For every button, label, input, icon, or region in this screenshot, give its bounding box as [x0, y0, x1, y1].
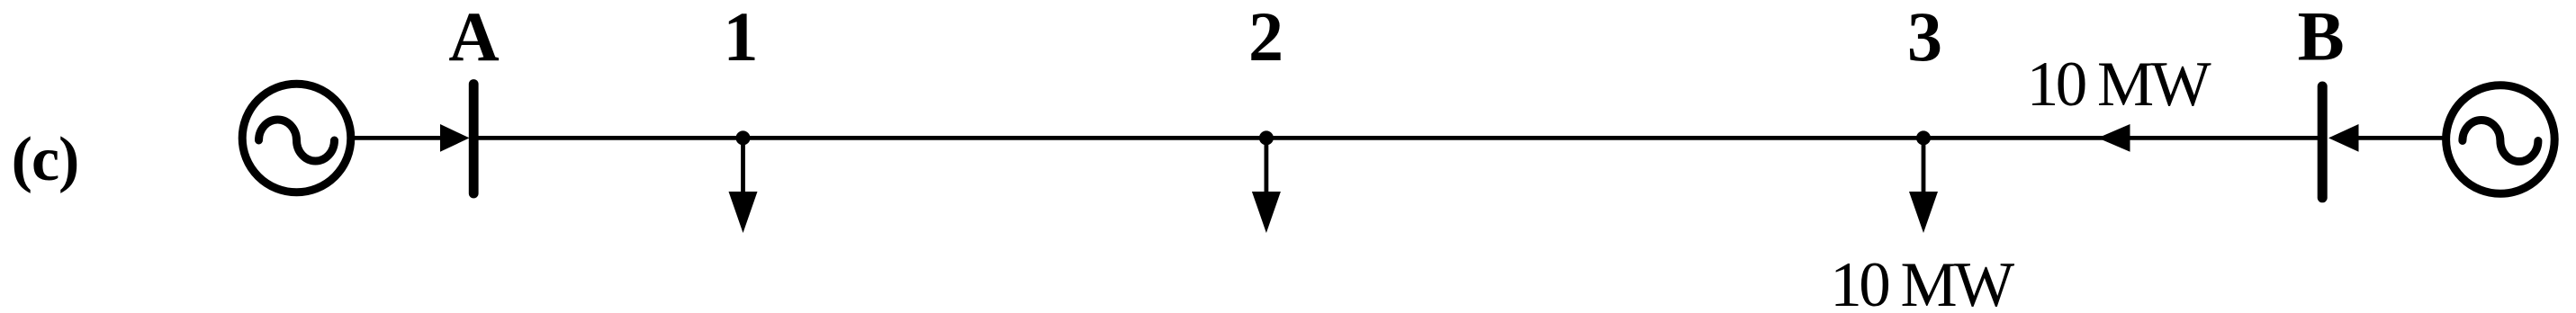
generator left: sine wave: [259, 120, 335, 161]
svg-text:A: A: [448, 0, 499, 76]
wire: bus A to bus B main line: [478, 136, 2319, 140]
svg-text:B: B: [2298, 0, 2345, 76]
arrowhead: flow into bus B (pointing left): [2328, 124, 2359, 152]
busbar A: [469, 85, 479, 194]
svg-text:10 MW: 10 MW: [2027, 49, 2211, 120]
load arrow at node 3 (head): [1909, 192, 1938, 233]
node 3 junction dot: [1916, 130, 1931, 145]
generator right: sine wave: [2463, 121, 2538, 162]
svg-text:2: 2: [1248, 0, 1283, 76]
load arrow at node 1 (head): [729, 192, 758, 233]
svg-text:3: 3: [1907, 0, 1942, 76]
svg-text:1: 1: [724, 0, 759, 76]
wire: bus B to right generator: [2357, 136, 2443, 140]
svg-text:(c): (c): [12, 125, 79, 194]
svg-text:10 MW: 10 MW: [1830, 250, 2014, 313]
load arrow at node 2 (shaft): [1265, 138, 1269, 197]
generator right: AC source circle: [2446, 85, 2555, 194]
node 1 junction dot: [736, 130, 751, 145]
load arrow at node 2 (head): [1252, 192, 1281, 233]
arrowhead: flow into bus A (pointing right): [440, 124, 470, 152]
arrowhead: flow from B toward node 3 (pointing left): [2098, 124, 2130, 152]
generator left: AC source circle: [242, 84, 351, 192]
load arrow at node 1 (shaft): [741, 138, 745, 197]
busbar B: [2318, 86, 2328, 198]
node 2 junction dot: [1259, 130, 1274, 145]
wire: left generator to bus A: [354, 136, 443, 140]
load arrow at node 3 (shaft): [1922, 138, 1926, 197]
